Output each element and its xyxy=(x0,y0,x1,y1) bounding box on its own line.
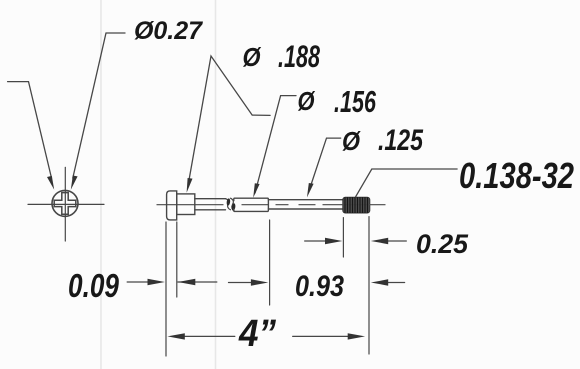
leader for label .188 xyxy=(188,56,270,184)
arrowhead 0.09 right (points left) xyxy=(178,279,195,285)
side view: head flange xyxy=(167,191,177,220)
side view: shank section d 0.156 xyxy=(234,198,269,211)
break symbol blobs xyxy=(226,198,236,211)
circle view: screw head outline xyxy=(52,190,78,216)
svg-text:Ø0.27: Ø0.27 xyxy=(134,17,203,45)
extension line at head right xyxy=(176,222,178,297)
threaded end 0.138-32 xyxy=(343,197,370,213)
threads hatching xyxy=(345,197,368,213)
extension line at screw right end xyxy=(368,217,370,354)
arrowhead of .125 leader xyxy=(307,183,314,197)
svg-text:0.138-32: 0.138-32 xyxy=(459,155,574,196)
arrowhead of .156 leader xyxy=(253,183,259,198)
side view: shank section d 0.188 xyxy=(195,199,226,210)
bare leader to head circle (left) xyxy=(8,82,52,178)
leader for label 0.138-32 xyxy=(356,169,458,197)
arrowhead 0.25 left (points right) xyxy=(325,238,342,244)
leader for label .156 xyxy=(255,96,296,193)
arrowhead of .188 leader at head xyxy=(187,178,193,193)
svg-text:Ø: Ø xyxy=(243,42,263,72)
arrowhead at circle from bare leader xyxy=(47,176,54,190)
vertical centerline of circle view xyxy=(64,167,66,241)
arrowhead at circle from 0.27 leader xyxy=(71,176,78,190)
extension line at shank step xyxy=(269,220,271,305)
svg-text:Ø: Ø xyxy=(342,126,362,156)
svg-text:.156: .156 xyxy=(334,84,377,119)
arrowhead 0.09 left (points right) xyxy=(148,279,165,285)
side view: shank section d 0.125 xyxy=(268,200,342,209)
arrowhead 4inch left (points left) xyxy=(167,333,184,339)
extension line at head left xyxy=(165,222,167,356)
horizontal centerline of circle view xyxy=(28,203,104,205)
arrowhead 4inch right (points right) xyxy=(348,333,365,339)
arrowhead 0.25 right (points left) xyxy=(371,238,388,244)
dimension line 0.09 xyxy=(127,281,217,283)
svg-text:4”: 4” xyxy=(238,313,276,355)
main centerline of side view xyxy=(157,204,385,206)
svg-text:Ø: Ø xyxy=(298,86,316,116)
svg-text:0.09: 0.09 xyxy=(68,267,120,304)
break symbol xyxy=(226,198,235,211)
svg-text:.188: .188 xyxy=(278,38,320,74)
arrowhead 0.93 right (points left) xyxy=(371,279,388,285)
svg-text:.125: .125 xyxy=(378,124,424,157)
extension line at thread start xyxy=(342,218,344,257)
leader for label .125 xyxy=(309,138,341,192)
dimension line 0.25 xyxy=(305,240,407,242)
svg-text:0.25: 0.25 xyxy=(416,229,469,259)
side view: head cylinder xyxy=(177,194,195,215)
leader from label 0.27 to head circle xyxy=(73,33,125,178)
dimension line 4 inch xyxy=(183,335,349,337)
arrowhead 0.93 left (points right) xyxy=(251,279,268,285)
svg-text:0.93: 0.93 xyxy=(295,270,344,303)
dimension line 0.93 xyxy=(229,282,405,284)
phillips cross recess xyxy=(54,193,76,215)
